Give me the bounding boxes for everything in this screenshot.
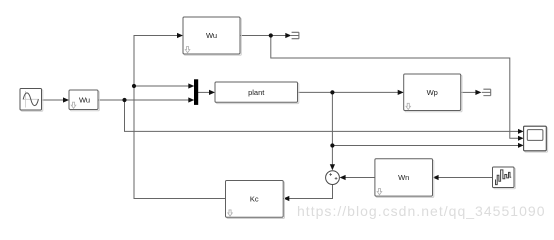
svg-text:Wu: Wu [206, 31, 217, 40]
svg-text:plant: plant [248, 88, 265, 97]
svg-text:Wn: Wn [398, 173, 409, 182]
svg-text:Wu: Wu [79, 96, 90, 105]
svg-text:Kc: Kc [250, 194, 259, 203]
svg-text:Wp: Wp [427, 88, 438, 97]
svg-text:https://blog.csdn.net/qq_34551: https://blog.csdn.net/qq_34551090 [297, 203, 546, 219]
